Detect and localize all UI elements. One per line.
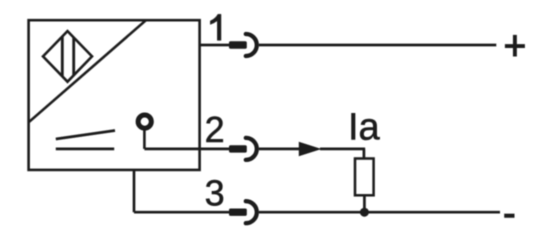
- svg-text:3: 3: [205, 173, 225, 214]
- svg-text:Ia: Ia: [348, 107, 381, 149]
- svg-text:2: 2: [205, 109, 225, 150]
